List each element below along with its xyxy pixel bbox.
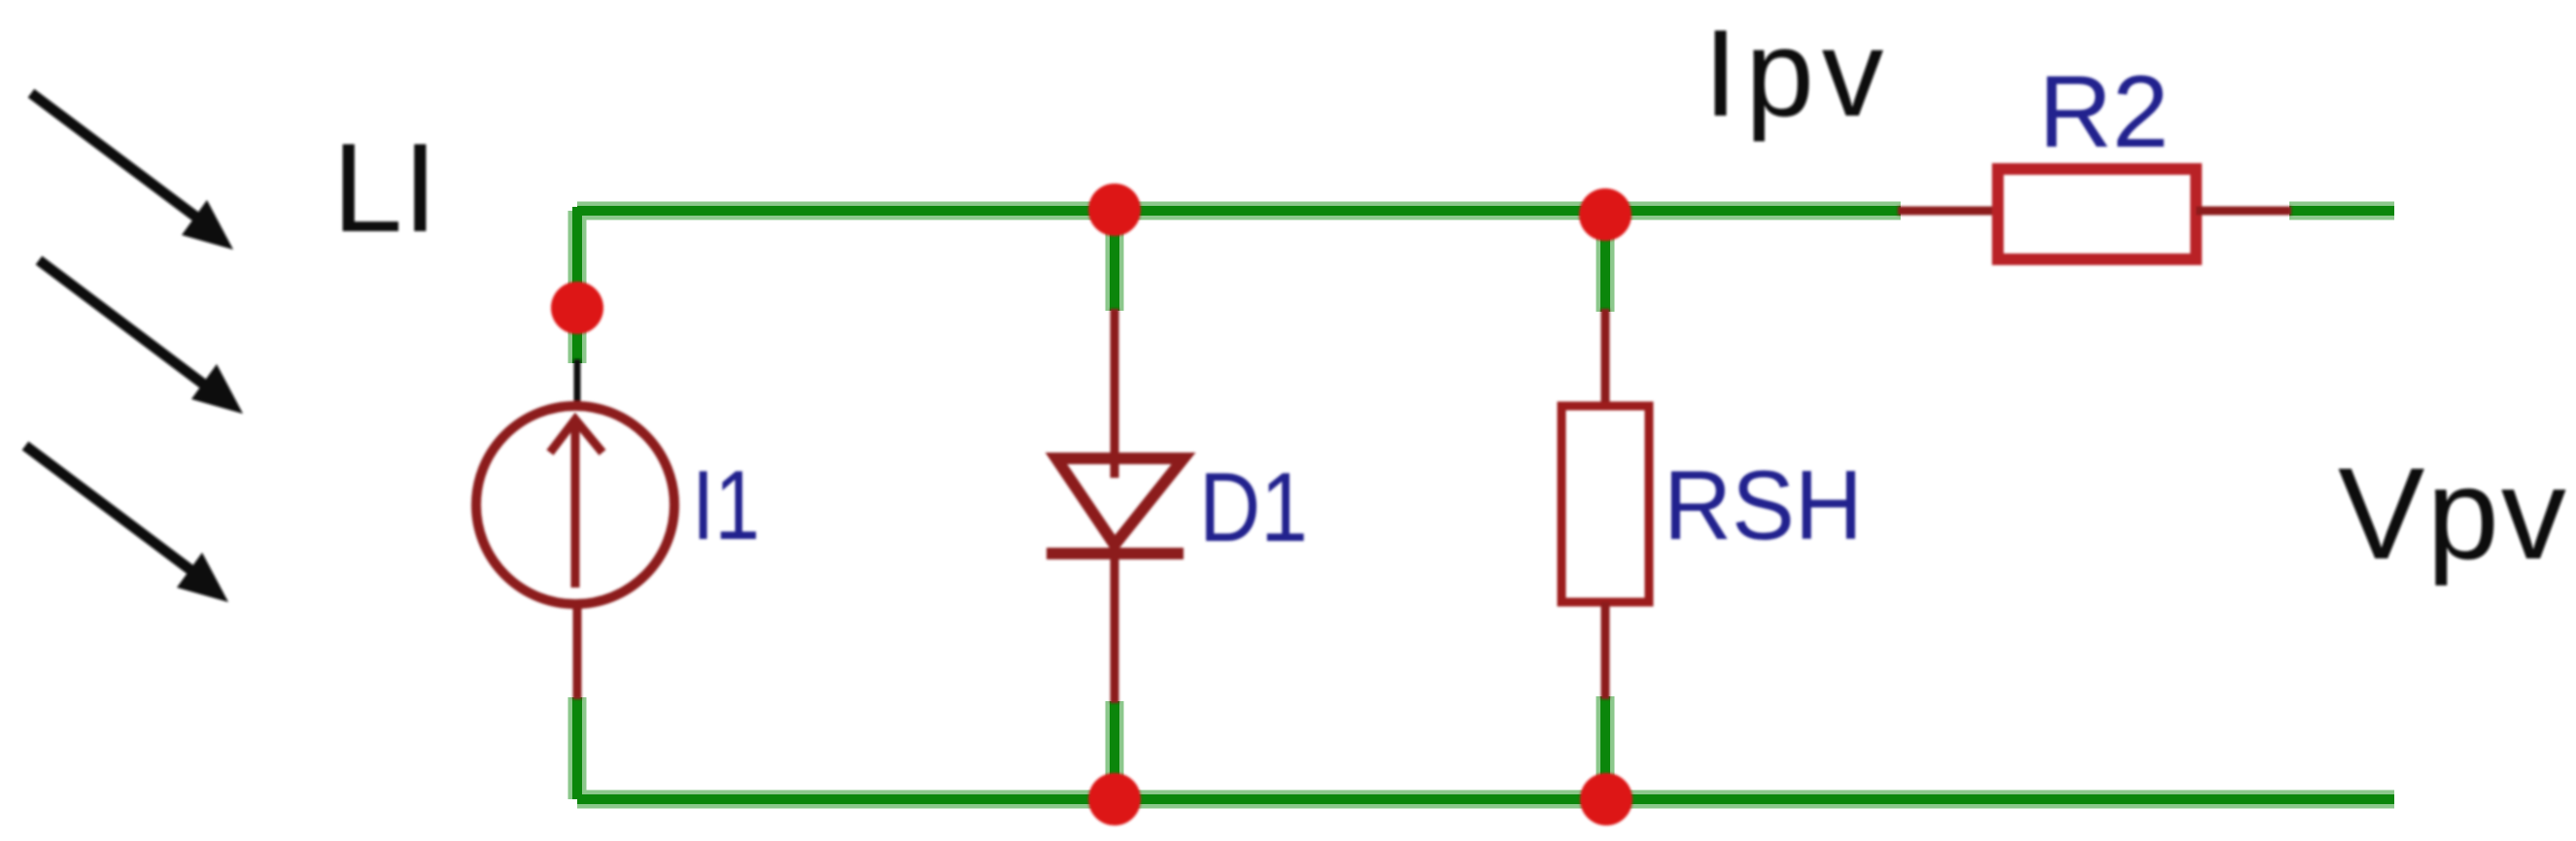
junction node dot left [551, 282, 603, 334]
wire top horizontal [577, 206, 1901, 216]
light ray arrow 3 [25, 446, 228, 602]
wire diode top [1110, 211, 1119, 311]
wire left vertical halo [568, 211, 587, 363]
light ray arrow 1 [31, 93, 233, 250]
junction node dot top RSH [1579, 188, 1631, 241]
resistor R2 left stub dark red [1898, 207, 1997, 216]
resistor RSH body [1562, 406, 1649, 602]
diode D1 anode wire dark red [1111, 309, 1119, 478]
junction node dot top diode [1088, 184, 1141, 236]
wire bottom horizontal halo [577, 791, 2394, 809]
resistor R2 right stub dark red [2196, 207, 2291, 216]
junction node dot bottom diode [1088, 773, 1141, 825]
svg-text:D1: D1 [1199, 454, 1308, 562]
wire RSH top halo [1597, 211, 1615, 312]
wire top right green segment [2289, 206, 2394, 216]
svg-text:LI: LI [332, 117, 437, 258]
current source I1 arrow shaft [571, 420, 580, 588]
svg-text:Ipv: Ipv [1703, 4, 1891, 142]
diode D1 cathode wire dark red [1111, 554, 1119, 703]
svg-text:RSH: RSH [1664, 452, 1863, 560]
wire RSH top [1600, 211, 1610, 312]
wire left vertical lower halo [568, 697, 587, 799]
wire top right green segment halo [2289, 202, 2394, 220]
resistor R2 body [1998, 169, 2196, 259]
wire diode bottom [1110, 701, 1119, 799]
wire RSH bottom [1600, 696, 1610, 799]
junction node dot bottom RSH [1580, 773, 1632, 825]
wire left vertical lower [572, 697, 582, 799]
wire RSH bottom halo [1597, 696, 1615, 799]
resistor RSH bottom wire dark red [1601, 602, 1610, 699]
diode D1 triangle [1056, 458, 1184, 545]
light ray arrow 2 [39, 260, 243, 414]
wire diode top halo [1106, 211, 1124, 311]
wire left vertical [572, 207, 582, 363]
wire top horizontal light halo [577, 202, 1901, 220]
current source I1 arrow chevron [550, 420, 602, 453]
current source I1 bottom dark red wire [573, 602, 582, 699]
svg-text:Vpv: Vpv [2338, 442, 2568, 587]
current source I1 circle [476, 406, 674, 604]
current source I1 black pin [574, 359, 581, 404]
svg-text:R2: R2 [2039, 55, 2169, 169]
wire diode bottom halo [1106, 701, 1124, 799]
svg-text:I1: I1 [692, 452, 760, 560]
diode D1 cathode bar [1047, 548, 1184, 559]
resistor RSH top wire dark red [1601, 309, 1610, 406]
wire bottom horizontal [577, 794, 2394, 804]
